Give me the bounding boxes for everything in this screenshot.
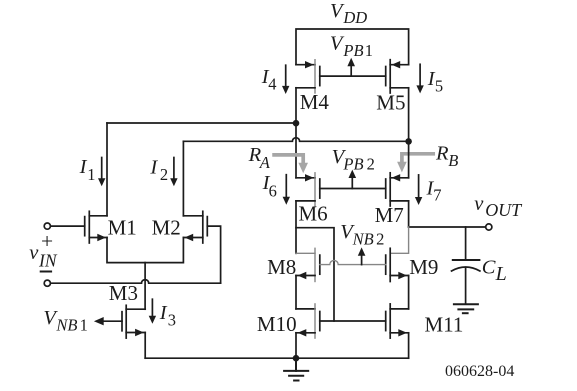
svg-text:060628-04: 060628-04: [445, 363, 514, 380]
transistor M5: [386, 60, 409, 93]
current arrow I3: [149, 299, 156, 324]
svg-text:OUT: OUT: [485, 200, 523, 220]
node junction dot at ground rail: [293, 355, 300, 362]
resistor label RB: [435, 143, 458, 170]
gray arrow RA pointing into M6 source: [274, 155, 303, 164]
transistor M7: [386, 141, 409, 206]
figure number 060628-04: [445, 363, 514, 380]
transistor M9: [386, 248, 409, 281]
svg-text:I: I: [159, 302, 168, 324]
label M10: [257, 312, 297, 336]
svg-text:PB: PB: [342, 41, 363, 60]
transistor M8: [296, 248, 320, 281]
transistor M4: [296, 60, 320, 93]
label M4: [300, 90, 330, 114]
svg-text:M4: M4: [300, 90, 330, 114]
svg-text:NB: NB: [55, 316, 77, 335]
svg-text:M2: M2: [152, 216, 181, 240]
label CL: [482, 257, 507, 285]
transistor M6: [296, 173, 320, 206]
label I4: [261, 66, 277, 94]
transistor M11: [386, 304, 409, 338]
wire vout horizontal: [409, 226, 486, 228]
node junction dot at M5 drain: [405, 138, 412, 145]
wire branch to class-AB gate feed: [296, 228, 334, 321]
svg-text:A: A: [259, 153, 271, 172]
bias arrow VPB2: [349, 170, 357, 189]
label VPB2: [332, 146, 375, 173]
svg-text:M10: M10: [257, 312, 297, 336]
wire M9 source down to M11 drain: [408, 276, 410, 309]
wire M6 drain down to M8 drain: [295, 201, 297, 253]
wire ground rail: [145, 357, 408, 359]
terminal vin plus: [44, 223, 50, 229]
wire VDD rail with drops to M4 and M5 sources: [296, 29, 409, 65]
svg-text:IN: IN: [38, 250, 58, 270]
terminal vin minus: [44, 280, 50, 286]
resistor label RA: [248, 144, 271, 172]
svg-text:2: 2: [367, 154, 375, 173]
label M7: [375, 203, 404, 227]
wire M10 source to ground rail: [295, 333, 297, 358]
label M9: [409, 255, 438, 279]
bias arrow VNB2: [358, 247, 366, 264]
label M5: [376, 91, 405, 115]
label M2: [152, 216, 181, 240]
capacitor CL: [452, 260, 480, 271]
wire CL to ground: [465, 268, 467, 304]
label I2: [149, 156, 168, 184]
svg-text:2: 2: [160, 165, 168, 184]
svg-text:6: 6: [269, 181, 277, 200]
svg-text:3: 3: [168, 310, 176, 329]
svg-text:M6: M6: [299, 202, 328, 226]
svg-text:PB: PB: [342, 154, 363, 173]
wire M8 source down to M10 drain: [295, 276, 297, 309]
svg-text:4: 4: [268, 74, 276, 93]
wire gray vout node down to M9 drain: [390, 227, 408, 253]
label M8: [267, 255, 296, 279]
node junction dot at M4 drain: [293, 120, 300, 127]
label I1: [79, 156, 96, 184]
label VNB2: [340, 221, 384, 248]
current arrow I5: [416, 64, 423, 93]
svg-text:M9: M9: [409, 255, 438, 279]
svg-text:C: C: [482, 257, 496, 279]
label M6: [299, 202, 328, 226]
wire M1-M2 common source rail: [107, 238, 183, 263]
current arrow I1: [98, 158, 105, 187]
ground symbol CL: [454, 304, 478, 313]
svg-text:1: 1: [80, 316, 88, 335]
ground symbol main: [284, 358, 308, 380]
transistor M10: [296, 304, 320, 338]
gray arrow RB pointing into M7 source: [402, 154, 433, 163]
label VDD: [330, 0, 367, 27]
wire second horizontal M2 drain to M5 drain node with hop over M6 wire: [183, 138, 408, 142]
wire M5 drain down to node: [408, 88, 410, 142]
label VNB1: [43, 307, 87, 335]
svg-text:2: 2: [376, 229, 384, 248]
svg-text:v: v: [474, 193, 484, 215]
wire M4 drain down through node to M6 source: [295, 88, 297, 178]
svg-text:L: L: [495, 263, 507, 285]
svg-text:I: I: [149, 156, 158, 178]
wire M4-M5 gate line: [320, 75, 386, 77]
wire vin minus line to M2 gate with hop over tail: [51, 280, 221, 284]
svg-text:1: 1: [87, 165, 95, 184]
svg-text:DD: DD: [342, 8, 367, 27]
svg-text:M8: M8: [267, 255, 296, 279]
wire M7 drain to vout node: [408, 201, 410, 227]
label VPB1: [330, 33, 373, 60]
svg-text:M3: M3: [109, 281, 138, 305]
label I6: [262, 172, 277, 200]
label M11: [425, 312, 464, 336]
wire tail down to M3 drain: [144, 263, 146, 310]
label I3: [159, 302, 176, 330]
label I5: [427, 68, 443, 95]
svg-text:1: 1: [365, 41, 373, 60]
svg-text:M5: M5: [376, 91, 405, 115]
svg-text:5: 5: [435, 77, 443, 96]
bias arrow VPB1: [347, 58, 355, 76]
label M1: [108, 216, 137, 240]
label I7: [426, 177, 442, 204]
label vIN minus: [41, 271, 51, 273]
svg-text:7: 7: [433, 186, 441, 205]
wire M3 drain lead vertical: [126, 308, 145, 310]
label vIN: [29, 242, 58, 271]
label vIN plus: [41, 229, 53, 253]
transistor M2: [183, 211, 220, 283]
label M3: [109, 281, 138, 305]
wire gray M8-M9 gate line with hop over gate feed: [320, 260, 386, 264]
label vOUT: [474, 193, 523, 220]
current arrow I4: [282, 65, 289, 94]
current arrow I6: [283, 175, 290, 205]
svg-text:B: B: [448, 151, 458, 170]
terminal vout: [486, 224, 492, 230]
wire top horizontal from M1 drain to node: [107, 122, 296, 124]
current arrow I2: [170, 158, 177, 187]
wire M6-M7 gate line: [320, 188, 386, 190]
current arrow I7: [415, 175, 422, 205]
svg-text:R: R: [435, 143, 449, 165]
svg-text:M7: M7: [375, 203, 404, 227]
transistor M1: [50, 211, 107, 243]
svg-text:NB: NB: [352, 229, 374, 248]
wire M10-M11 gate line: [320, 320, 386, 322]
transistor M3: [94, 305, 145, 358]
svg-text:M1: M1: [108, 216, 137, 240]
wire M11 source to ground rail: [408, 333, 410, 358]
wire M1 drain vertical: [106, 123, 108, 216]
svg-text:M11: M11: [425, 312, 464, 336]
wire M2 drain vertical: [182, 141, 184, 216]
svg-text:v: v: [29, 242, 39, 264]
capacitor CL top wire: [465, 227, 467, 259]
